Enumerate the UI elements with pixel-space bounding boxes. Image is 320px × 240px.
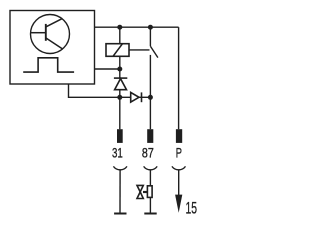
- switch S1 upper lead: [149, 27, 151, 46]
- wire: rail to relay coil: [119, 27, 121, 44]
- terminal pin 87: [147, 129, 153, 143]
- diode D2 triangle: [131, 92, 139, 102]
- svg-text:31: 31: [112, 145, 123, 161]
- solenoid valve Y1 hourglass: [137, 185, 143, 198]
- wire: coil bottom to node: [119, 56, 121, 69]
- switch S1 blade: [150, 46, 158, 57]
- wire: node to diode D1: [119, 69, 121, 78]
- wire: box middle output: [95, 68, 120, 70]
- terminal pin 31: [117, 129, 123, 143]
- diode D1 cathode bar: [114, 77, 127, 79]
- terminal pin P: [176, 129, 182, 143]
- mechanical link: coil to switch: [129, 49, 150, 51]
- ground bar 31: [114, 213, 126, 215]
- supply arrow terminal 15: [175, 195, 182, 213]
- pulse waveform symbol: [23, 58, 74, 72]
- svg-text:87: 87: [142, 145, 154, 161]
- ground bar 87: [144, 213, 156, 215]
- wire: socket 87 to valve: [149, 170, 151, 186]
- wire: socket 31 to ground bar: [119, 170, 121, 213]
- svg-text:P: P: [176, 145, 182, 161]
- svg-text:15: 15: [186, 198, 198, 217]
- diode D1 triangle: [115, 79, 127, 90]
- relay coil K1: [106, 44, 129, 57]
- connector socket 31: [113, 166, 127, 169]
- node: coil-diode junction: [117, 67, 122, 72]
- wire: rail down to terminal P: [178, 27, 180, 129]
- wire: top supply rail: [95, 26, 179, 28]
- node: rail-coil junction: [117, 25, 122, 30]
- wire: socket P to arrow: [178, 170, 180, 196]
- wire: diode D2 to node 87: [139, 96, 150, 98]
- control unit box U1: [10, 11, 95, 85]
- connector socket P: [172, 166, 186, 169]
- wire: valve to ground bar 87: [149, 197, 151, 212]
- wire: node 31 to diode D2: [120, 96, 131, 98]
- transistor Q1: [31, 18, 64, 49]
- transistor Q1 circle: [31, 15, 70, 54]
- connector socket 87: [144, 166, 158, 169]
- node: rail-switch junction: [148, 25, 153, 30]
- wire: switch contact to terminal 87: [149, 55, 151, 129]
- wire: box bottom output riser: [69, 84, 120, 97]
- wire: diode D1 to node 31: [119, 90, 121, 98]
- node: 31 junction: [117, 95, 122, 100]
- node: 87 junction: [148, 95, 153, 100]
- wire: node to terminal 31: [119, 97, 121, 129]
- diode D2 cathode bar: [141, 92, 143, 102]
- valve actuator link: [143, 191, 147, 193]
- valve solenoid body: [147, 186, 152, 198]
